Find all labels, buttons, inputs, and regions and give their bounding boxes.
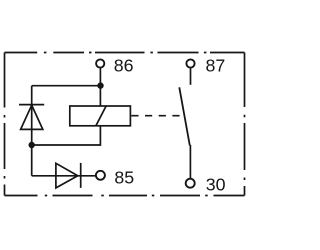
svg-text:85: 85 — [114, 168, 134, 188]
svg-text:30: 30 — [206, 175, 226, 195]
svg-text:87: 87 — [206, 56, 226, 76]
svg-text:86: 86 — [114, 56, 134, 76]
